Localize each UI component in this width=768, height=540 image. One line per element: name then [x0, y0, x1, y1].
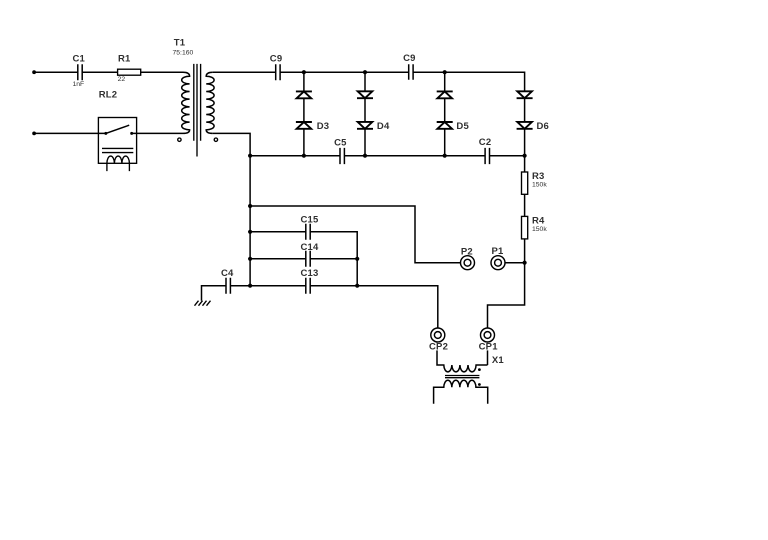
svg-text:P2: P2	[461, 247, 473, 258]
svg-text:C13: C13	[301, 268, 319, 279]
svg-text:C9: C9	[403, 53, 416, 64]
svg-text:C1: C1	[73, 53, 86, 64]
svg-text:C2: C2	[479, 137, 492, 148]
svg-text:X1: X1	[492, 355, 505, 366]
svg-text:T1: T1	[174, 38, 186, 49]
svg-text:150k: 150k	[532, 182, 547, 189]
svg-text:CP2: CP2	[429, 342, 448, 353]
svg-text:D3: D3	[317, 121, 330, 132]
svg-text:D5: D5	[456, 121, 469, 132]
svg-text:150k: 150k	[532, 226, 547, 233]
svg-text:D6: D6	[537, 121, 550, 132]
svg-text:22: 22	[118, 76, 126, 83]
svg-text:C9: C9	[270, 53, 283, 64]
svg-text:CP1: CP1	[479, 341, 499, 352]
svg-text:P1: P1	[492, 246, 505, 257]
svg-text:D4: D4	[377, 121, 390, 132]
svg-text:C14: C14	[301, 242, 320, 253]
svg-text:C5: C5	[334, 138, 347, 149]
svg-text:R1: R1	[118, 53, 131, 64]
svg-text:C4: C4	[221, 268, 234, 279]
svg-text:1nF: 1nF	[73, 81, 85, 88]
svg-text:RL2: RL2	[99, 90, 118, 101]
svg-text:R3: R3	[532, 171, 545, 182]
svg-text:75:160: 75:160	[173, 50, 194, 57]
svg-text:R4: R4	[532, 215, 545, 226]
svg-text:C15: C15	[301, 215, 320, 226]
